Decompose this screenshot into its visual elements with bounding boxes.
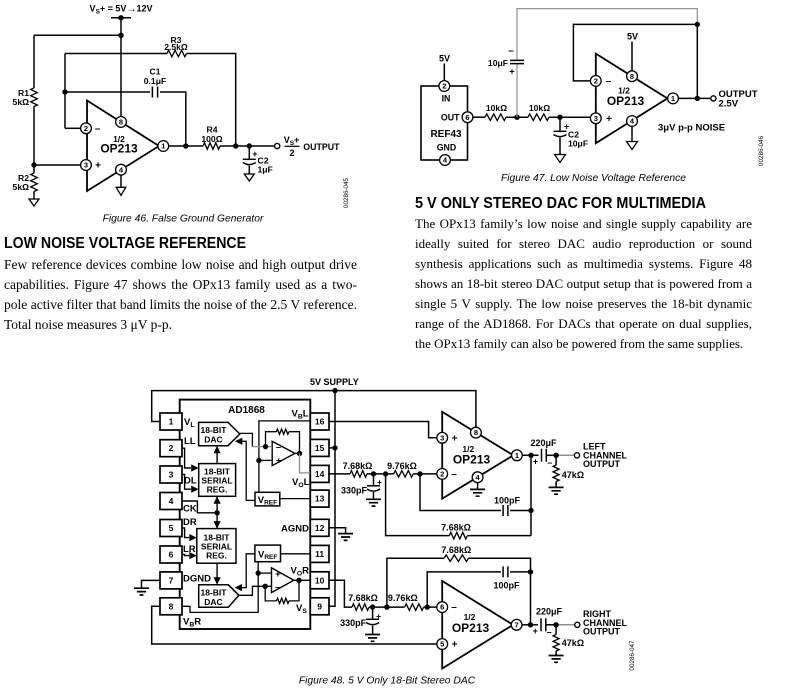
junction C1/output <box>183 143 188 148</box>
svg-text:REF43: REF43 <box>430 129 462 140</box>
op-amp U3 1/2 OP213 (left channel) <box>442 412 513 499</box>
wire: CK pin 4 <box>182 501 215 513</box>
svg-text:100pF: 100pF <box>493 580 520 590</box>
wire: pin 16 VBL to U3 pin 3 <box>329 422 437 438</box>
AD1868 pin 15 box <box>310 439 329 456</box>
wire: internal + input (right) <box>258 572 271 574</box>
svg-text:DAC: DAC <box>204 435 222 445</box>
paragraph: low noise voltage reference body <box>4 255 357 335</box>
wire: 7.68k feedback row (left) <box>386 474 450 536</box>
wire: cap to output terminal (left) <box>546 454 574 456</box>
wire: DAC out to internal - <box>240 433 253 446</box>
wire: VREF to pin 11 <box>281 553 311 555</box>
svg-text:+: + <box>533 456 538 466</box>
junction R3/output <box>233 143 238 148</box>
capacitor 10μF (feedback) <box>510 60 524 63</box>
svg-text:–: – <box>275 582 280 593</box>
svg-text:IN: IN <box>442 94 451 104</box>
ground at AGND <box>338 534 353 541</box>
svg-text:7: 7 <box>169 575 174 585</box>
svg-text:16: 16 <box>315 417 325 427</box>
svg-text:18-BIT: 18-BIT <box>201 588 228 598</box>
svg-text:DR: DR <box>183 517 197 528</box>
AD1868 pin 5 box <box>160 520 182 537</box>
svg-text:330pF: 330pF <box>341 486 368 496</box>
Figure 48 schematic group <box>134 377 628 669</box>
gray feedback wire via 10μF <box>516 64 518 117</box>
svg-text:8: 8 <box>474 428 478 437</box>
ground at pin 4 <box>116 187 126 195</box>
svg-text:Figure 48. 5 V Only 18-Bit Ste: Figure 48. 5 V Only 18-Bit Stereo DAC <box>299 676 476 687</box>
AD1868 pin 16 box <box>310 413 329 430</box>
svg-text:LL: LL <box>184 436 196 447</box>
wire: internal + input <box>259 459 272 461</box>
svg-text:7: 7 <box>515 620 519 629</box>
wire: U3 output row <box>522 454 538 456</box>
wire: R1 to R2 node <box>33 107 35 174</box>
svg-text:VBR: VBR <box>183 617 201 629</box>
ground at U3 pin 4 <box>470 489 485 496</box>
junction 330pF node <box>371 471 376 476</box>
capacitor C2 1μF <box>248 146 250 159</box>
svg-text:100pF: 100pF <box>494 495 521 505</box>
ground below R2 <box>29 199 39 206</box>
svg-text:+: + <box>275 569 281 580</box>
svg-text:R4: R4 <box>207 125 218 135</box>
ground below 330pF (left) <box>366 499 381 506</box>
svg-text:C1: C1 <box>150 67 161 77</box>
junction 100pF feedback (left) <box>528 508 533 513</box>
svg-text:2: 2 <box>84 124 88 133</box>
ground below C2 <box>555 155 566 163</box>
resistor 47kΩ (right) <box>555 625 557 635</box>
wire: feedback pin2 to output <box>573 24 697 98</box>
pin 4 <box>627 116 638 127</box>
U3 pin 1 output <box>512 450 523 461</box>
AD1868 U5 DAC chip body <box>180 400 311 629</box>
ground at DGND <box>134 588 149 595</box>
resistor 7.68kΩ feedback (right) <box>444 555 468 562</box>
wire: output row <box>678 97 710 99</box>
heading: LOW NOISE VOLTAGE REFERENCE <box>4 236 246 252</box>
op-amp U2 1/2 OP213 <box>596 54 668 144</box>
wire: pin 1 VL to 5V rail <box>152 391 476 428</box>
wire: 100pF row (left) <box>420 474 501 511</box>
svg-text:–: – <box>547 457 552 467</box>
svg-text:–: – <box>276 442 281 453</box>
capacitor 330pF (left) <box>373 474 375 485</box>
wire: C1 row left <box>65 91 150 93</box>
wire: U3 pin 4 to ground <box>477 483 479 489</box>
svg-text:5V: 5V <box>627 32 638 42</box>
svg-text:1: 1 <box>671 94 675 103</box>
svg-text:VS+: VS+ <box>284 135 300 147</box>
internal feedback resistor (left) <box>266 432 277 447</box>
junction 47k (left) <box>553 453 558 458</box>
AD1868 pin 12 box <box>310 519 329 536</box>
svg-text:Figure 47. Low Noise Voltage R: Figure 47. Low Noise Voltage Reference <box>501 173 686 184</box>
svg-text:47kΩ: 47kΩ <box>562 638 584 648</box>
output terminal <box>711 96 716 101</box>
svg-text:–: – <box>451 469 457 480</box>
svg-text:00286-047: 00286-047 <box>629 640 636 671</box>
AD1868 pin 14 box <box>310 465 329 482</box>
capacitor 100pF (left) <box>503 505 508 516</box>
wire: VREF to pin 13 <box>280 498 311 500</box>
arrow: serial reg to DAC (right) <box>216 563 218 579</box>
wire: top rail to R1 <box>34 34 121 36</box>
svg-text:2.5kΩ: 2.5kΩ <box>164 42 188 52</box>
svg-text:VREF: VREF <box>258 495 277 507</box>
resistor 10kΩ (second) <box>528 114 549 121</box>
svg-text:14: 14 <box>315 469 325 479</box>
svg-text:7.68kΩ: 7.68kΩ <box>348 593 378 603</box>
svg-text:1μF: 1μF <box>258 165 273 175</box>
junction 47k (right) <box>553 622 558 627</box>
svg-text:DGND: DGND <box>183 574 211 585</box>
wire: supply vertical to pin 8 <box>120 18 122 117</box>
svg-text:00286-046: 00286-046 <box>758 135 765 166</box>
output terminal LEFT <box>574 453 579 458</box>
svg-text:7.68kΩ: 7.68kΩ <box>441 545 471 555</box>
svg-text:2: 2 <box>440 470 444 479</box>
capacitor 100pF (right) <box>503 566 508 577</box>
svg-text:220μF: 220μF <box>536 606 563 616</box>
arrow: serial reg to DAC (left) <box>216 450 218 464</box>
ground below C2 <box>244 174 254 181</box>
wire: 100pF row (right) <box>427 572 501 607</box>
svg-text:–: – <box>451 602 457 613</box>
wire: cap to output terminal (right) <box>546 624 575 626</box>
resistor R1 5kΩ <box>31 88 38 106</box>
internal op-amp (left channel) <box>272 441 295 465</box>
svg-text:10: 10 <box>315 575 325 585</box>
wire: feedback vertical (right) <box>530 572 532 625</box>
svg-text:REG.: REG. <box>206 551 227 561</box>
resistor 7.68kΩ feedback (left) <box>449 532 467 539</box>
junction supply/top-rail <box>118 33 123 38</box>
svg-text:DAC: DAC <box>204 597 222 607</box>
svg-text:5: 5 <box>440 640 444 649</box>
wire: to 9.76k (right) <box>369 606 405 608</box>
REF43 pin 2 IN <box>439 81 450 92</box>
node: R1/R2/pin3 junction <box>31 162 36 167</box>
AD1868 pin 1 box <box>160 413 182 430</box>
arrow: DL pin 3 into serial reg <box>182 475 191 490</box>
svg-text:2: 2 <box>169 443 174 453</box>
wire: to mid node <box>506 116 528 118</box>
svg-text:10kΩ: 10kΩ <box>529 103 550 113</box>
svg-text:3: 3 <box>84 161 88 170</box>
junction feedback top <box>695 22 700 27</box>
arrow: DR pin 5 into serial reg <box>182 528 189 538</box>
junction pin 15 tie to 5V <box>332 445 337 450</box>
wire: pin 7 DGND to ground <box>142 580 161 587</box>
svg-text:VL: VL <box>184 417 195 429</box>
svg-text:100Ω: 100Ω <box>201 134 222 144</box>
junction C1 row / pin2 vertical <box>62 89 67 94</box>
wire: to pin 3 <box>549 116 590 118</box>
wire: pin 10 VOR out <box>329 580 352 607</box>
18-BIT SERIAL REG block (left) <box>199 464 236 497</box>
wire: U4 output row <box>522 624 538 626</box>
junction C2/output <box>247 143 252 148</box>
svg-text:Figure 46. False Ground Genera: Figure 46. False Ground Generator <box>103 214 264 225</box>
svg-text:+: + <box>452 640 458 651</box>
18-BIT DAC block (left channel) <box>199 422 240 445</box>
svg-text:VS+ = 5V→12V: VS+ = 5V→12V <box>90 4 153 16</box>
svg-text:VREF: VREF <box>258 549 277 561</box>
svg-text:2: 2 <box>289 148 294 158</box>
svg-text:OUTPUT: OUTPUT <box>583 459 621 469</box>
output terminal RIGHT <box>575 622 580 627</box>
junction 100pF feedback (right) <box>528 569 533 574</box>
svg-text:10μF: 10μF <box>488 58 508 68</box>
junction internal out (right) <box>296 578 301 583</box>
svg-text:4: 4 <box>169 496 174 506</box>
18-BIT DAC block (right channel) <box>199 585 239 608</box>
ground below 47k (left) <box>549 487 564 494</box>
op-amp U4 1/2 OP213 (right channel) <box>442 581 513 669</box>
svg-text:AD1868: AD1868 <box>228 405 265 416</box>
wire: feedback vertical (left) <box>530 455 532 535</box>
svg-text:330pF: 330pF <box>340 618 367 628</box>
junction CK <box>214 510 219 515</box>
junction 100pF tap (right) <box>425 604 430 609</box>
junction 330pF node (right) <box>370 604 375 609</box>
wire: supply vertical to pin 9 <box>329 391 335 607</box>
pin 2 <box>590 76 601 87</box>
svg-text:9.76kΩ: 9.76kΩ <box>387 461 417 471</box>
svg-text:6: 6 <box>440 603 444 612</box>
wire: R3 to output node <box>187 54 236 147</box>
resistor 9.76kΩ (left) <box>394 471 413 478</box>
wire: OUT to first resistor <box>473 116 485 118</box>
svg-text:1: 1 <box>515 451 519 460</box>
svg-text:VS: VS <box>296 603 307 615</box>
wire: VBR internal to + input <box>182 562 258 613</box>
svg-text:–: – <box>547 627 552 637</box>
svg-text:0.1μF: 0.1μF <box>144 76 166 86</box>
junction 100pF tap (left) <box>417 471 422 476</box>
U3 pin 8 <box>471 427 482 438</box>
AD1868 pin 10 box <box>310 572 329 589</box>
U3 pin 3 <box>437 432 448 443</box>
wire: VREF right stub and DAC arrow (right) <box>240 554 255 588</box>
wire: to pin 2 of U3 <box>413 473 437 475</box>
svg-text:OP213: OP213 <box>100 142 138 156</box>
svg-text:6: 6 <box>169 550 174 560</box>
svg-text:5V: 5V <box>439 54 450 64</box>
svg-text:7.68kΩ: 7.68kΩ <box>343 461 373 471</box>
heading: 5 V ONLY STEREO DAC FOR MULTIMEDIA <box>415 196 706 212</box>
Figure 46 schematic group <box>13 4 341 207</box>
AD1868 pin 13 box <box>310 490 329 507</box>
resistor 9.76kΩ (right) <box>405 604 424 611</box>
svg-text:1: 1 <box>161 142 165 151</box>
svg-text:7.68kΩ: 7.68kΩ <box>441 523 471 533</box>
wire: 5V to pin 8 <box>631 42 633 71</box>
svg-text:GND: GND <box>437 143 457 153</box>
junction: C2 node <box>557 115 562 120</box>
svg-text:DL: DL <box>184 476 197 487</box>
svg-text:3: 3 <box>594 114 598 123</box>
wire: pin 14 VOL out <box>329 473 350 475</box>
U3 pin 2 <box>437 469 448 480</box>
svg-text:11: 11 <box>315 549 324 559</box>
svg-text:3: 3 <box>440 433 444 442</box>
pin 2 <box>81 123 92 134</box>
wire: VBL to internal + <box>259 421 310 492</box>
resistor 10kΩ (first) <box>485 114 506 121</box>
resistor R2 5kΩ <box>31 173 38 191</box>
svg-text:10kΩ: 10kΩ <box>486 103 507 113</box>
svg-text:9: 9 <box>317 601 322 611</box>
resistor 7.68kΩ (right input) <box>352 604 369 611</box>
AD1868 pin 6 box <box>160 546 182 563</box>
svg-text:REG.: REG. <box>207 485 228 495</box>
VREF block (left) <box>255 492 280 506</box>
svg-text:OP213: OP213 <box>452 621 490 635</box>
wire: pin 15 stub <box>329 447 335 449</box>
svg-text:OUTPUT: OUTPUT <box>583 627 621 637</box>
wire: pin 4 to ground <box>120 175 122 187</box>
arrow: LL pin 2 into serial reg <box>182 448 191 468</box>
svg-text:3: 3 <box>169 470 174 480</box>
junction feedback tap (left) <box>383 471 388 476</box>
svg-text:AGND: AGND <box>281 524 309 535</box>
svg-text:+: + <box>452 433 458 444</box>
svg-text:–: – <box>606 76 612 87</box>
pin 1 <box>158 141 169 152</box>
paragraph: stereo DAC body <box>415 214 752 354</box>
internal feedback resistor (right) <box>265 586 276 601</box>
U4 pin 5 <box>437 639 448 650</box>
svg-text:OUT: OUT <box>441 112 460 122</box>
AD1868 pin 2 box <box>160 440 182 457</box>
wire: DAC out to internal - (right) <box>239 586 272 595</box>
svg-text:+: + <box>95 161 101 172</box>
AD1868 pin 11 box <box>310 545 329 562</box>
svg-text:1: 1 <box>169 417 174 427</box>
svg-text:OP213: OP213 <box>453 453 491 467</box>
junction output/feedback (right) <box>528 622 533 627</box>
svg-text:VOL: VOL <box>292 477 310 489</box>
svg-text:OUTPUT: OUTPUT <box>303 142 340 152</box>
svg-text:+: + <box>509 67 514 77</box>
internal op-amp (right channel) <box>272 568 294 593</box>
wire: internal out to VOL pin 14 <box>295 452 300 454</box>
output terminal <box>275 143 280 148</box>
U3 pin 4 <box>472 472 483 483</box>
pin 3 <box>590 113 601 124</box>
junction internal out <box>297 451 302 456</box>
resistor 7.68kΩ (left input) <box>350 471 367 478</box>
wire: C1 to output node <box>160 92 186 146</box>
svg-text:+: + <box>276 456 282 467</box>
wire: pin 4 to ground <box>631 126 633 141</box>
AD1868 pin 7 box <box>160 572 182 589</box>
junction internal - <box>263 444 268 449</box>
svg-text:18-BIT: 18-BIT <box>201 425 228 435</box>
svg-text:5V SUPPLY: 5V SUPPLY <box>310 377 359 387</box>
pin 1 output <box>668 93 679 104</box>
pin 3 <box>81 160 92 171</box>
junction internal + <box>256 458 261 463</box>
Figure 47 schematic group <box>421 9 758 166</box>
wire: VREF left stub and DAC arrow <box>240 441 255 500</box>
svg-text:2: 2 <box>594 77 598 86</box>
svg-text:12: 12 <box>315 523 325 533</box>
svg-text:3μV p-p NOISE: 3μV p-p NOISE <box>658 123 725 134</box>
wire: to 9.76k <box>367 473 394 475</box>
junction internal + (right) <box>256 570 261 575</box>
capacitor 330pF (right) <box>372 607 374 618</box>
svg-text:8: 8 <box>169 601 174 611</box>
wire: 5V to REF43 pin 2 <box>443 64 445 81</box>
junction output/feedback (left) <box>528 453 533 458</box>
svg-text:5kΩ: 5kΩ <box>13 97 30 107</box>
junction rail / supply vertical <box>332 388 337 393</box>
svg-text:220μF: 220μF <box>530 438 557 448</box>
svg-text:10μF: 10μF <box>568 139 588 149</box>
VREF block (right) <box>255 545 281 562</box>
junction feedback tap (right) <box>384 604 389 609</box>
AD1868 pin 4 box <box>160 493 182 510</box>
svg-text:2.5V: 2.5V <box>719 99 739 110</box>
wire: node to pin 3 <box>34 164 81 166</box>
U4 pin 6 <box>437 602 448 613</box>
pin 8 <box>116 117 127 128</box>
capacitor C2 10μF <box>559 117 561 130</box>
U4 pin 7 output <box>511 619 522 630</box>
wire: left rail down to R1 <box>33 35 35 88</box>
svg-text:+: + <box>606 114 612 125</box>
resistor R3 2.5kΩ <box>167 50 186 57</box>
svg-text:00286-045: 00286-045 <box>343 177 350 208</box>
resistor 47kΩ (left) <box>555 455 557 465</box>
svg-text:15: 15 <box>315 443 325 453</box>
op-amp U1 1/2 OP213 <box>87 101 159 192</box>
junction: filter mid node <box>514 115 519 120</box>
capacitor C1 0.1μF <box>152 87 157 98</box>
svg-text:CK: CK <box>183 504 197 515</box>
svg-text:–: – <box>95 123 101 134</box>
resistor R4 100Ω <box>203 143 220 150</box>
REF43 U2 voltage reference box <box>421 86 468 160</box>
wire: to pin 6 of U4 <box>424 606 437 608</box>
svg-text:–: – <box>508 46 514 57</box>
svg-text:OP213: OP213 <box>607 94 645 108</box>
junction internal - (right) <box>263 584 268 589</box>
svg-text:8: 8 <box>630 72 634 81</box>
svg-text:8: 8 <box>119 118 123 127</box>
wire: 7.68k feedback row (right) <box>387 558 444 607</box>
svg-text:9.76kΩ: 9.76kΩ <box>388 593 418 603</box>
ground below 330pF (right) <box>365 635 380 642</box>
arrow: LR pin 6 into serial reg <box>182 555 189 556</box>
arrow pair: CK between serial regs <box>216 496 218 528</box>
svg-text:5kΩ: 5kΩ <box>13 182 30 192</box>
wire: pin 12 AGND to ground <box>329 528 346 533</box>
wire: R3/C1 left vertical into pin 2 <box>64 54 66 129</box>
svg-text:2: 2 <box>442 82 446 91</box>
svg-text:+: + <box>533 626 538 636</box>
wire: R2 to ground <box>33 192 35 200</box>
AD1868 pin 9 box <box>310 598 329 615</box>
ground below 47k (right) <box>549 656 564 663</box>
svg-text:VBL: VBL <box>292 409 309 421</box>
